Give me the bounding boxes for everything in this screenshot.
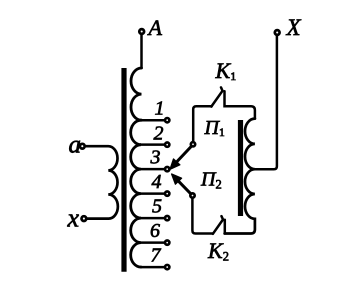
node P2 pivot bbox=[190, 193, 194, 197]
node tap 5 bbox=[165, 216, 169, 220]
switch K2 blade bbox=[213, 216, 223, 234]
wire tap 2 bbox=[141, 143, 164, 146]
node tap 2 bbox=[165, 142, 169, 146]
terminal A bbox=[139, 29, 144, 34]
switch K2 fixed contact bbox=[224, 220, 227, 234]
wire K1 left vertical to P1 pivot bbox=[193, 106, 211, 141]
svg-text:5: 5 bbox=[152, 196, 162, 218]
svg-text:6: 6 bbox=[150, 220, 160, 242]
winding W3 (reversing winding) bbox=[225, 119, 255, 234]
node P1 pivot bbox=[191, 142, 195, 146]
svg-text:1: 1 bbox=[155, 98, 165, 120]
winding W1 upper section (A to tap 1) bbox=[131, 68, 142, 120]
svg-text:A: A bbox=[147, 15, 163, 40]
svg-text:x: x bbox=[67, 203, 80, 232]
winding W2 (a-x) bbox=[86, 146, 118, 218]
terminal x bbox=[82, 216, 87, 221]
arrow P2 head (points to tap 3) bbox=[172, 174, 182, 184]
arrow P1 head (points to tap 3) bbox=[170, 159, 180, 169]
svg-text:7: 7 bbox=[151, 245, 162, 267]
svg-text:4: 4 bbox=[152, 171, 162, 193]
node tap 7 bbox=[165, 265, 169, 269]
svg-text:2: 2 bbox=[154, 122, 164, 144]
wire tap 3 bbox=[141, 168, 164, 171]
core (right short bar) bbox=[238, 120, 243, 216]
wire arrow P2 shaft bbox=[179, 181, 191, 194]
node tap 6 bbox=[165, 240, 169, 244]
wire tap 4 bbox=[141, 192, 164, 195]
svg-text:a: a bbox=[69, 131, 82, 158]
node tap 1 bbox=[165, 118, 169, 122]
wire tap 1 bbox=[141, 119, 164, 122]
wire K2 left vertical to P2 pivot bbox=[192, 199, 213, 234]
wire tap 5 bbox=[141, 217, 164, 220]
node tap 4 bbox=[165, 191, 169, 195]
wire X lead down to winding W3 mid tap bbox=[255, 36, 277, 169]
wire tap 7 bbox=[141, 266, 164, 269]
wire arrow P1 shaft bbox=[177, 146, 192, 162]
svg-text:3: 3 bbox=[150, 147, 161, 169]
terminal X bbox=[275, 30, 280, 35]
svg-text:X: X bbox=[286, 15, 302, 40]
switch K1 blade bbox=[211, 87, 222, 106]
switch K1 fixed contact and wire to winding W3 top bbox=[225, 91, 255, 118]
core (main vertical bar) bbox=[121, 68, 126, 272]
wire tap 6 bbox=[141, 241, 164, 244]
terminal a bbox=[80, 144, 85, 149]
node tap 3 bbox=[165, 167, 169, 171]
winding W1 tapped section (taps 1-7) bbox=[131, 120, 141, 267]
wire A lead bbox=[140, 35, 143, 68]
